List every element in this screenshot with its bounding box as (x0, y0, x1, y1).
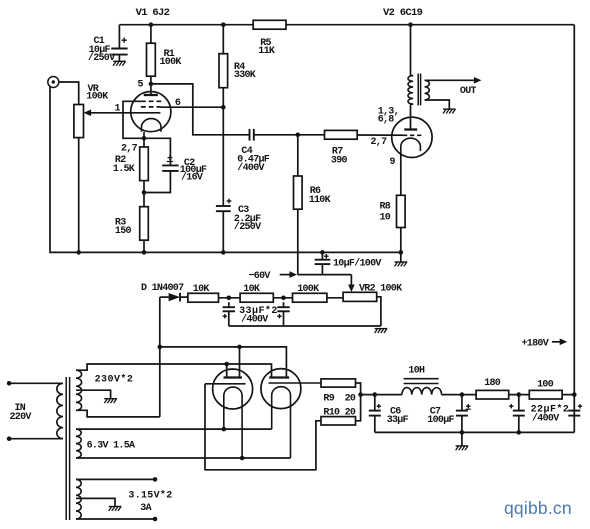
wire HV tap riser (159, 297, 161, 417)
wire top rail to OPT (411, 25, 414, 76)
svg-text:/400V: /400V (241, 314, 268, 326)
svg-text:330K: 330K (234, 70, 256, 81)
resistor 10K first (188, 293, 219, 302)
wire jack to VR top (59, 82, 79, 105)
resistor R4 (222, 25, 224, 54)
svg-text:100: 100 (537, 379, 554, 390)
resistor R10 (321, 417, 356, 425)
wire R7 to V2 grid (357, 134, 403, 136)
svg-text:/400V: /400V (237, 162, 264, 174)
rectifier tube2 envelope (261, 369, 301, 409)
svg-text:9: 9 (390, 157, 396, 168)
node R6 top (296, 133, 301, 138)
svg-text:/250V: /250V (234, 221, 261, 233)
tube V1 envelope (131, 92, 171, 132)
svg-text:/400V: /400V (532, 413, 559, 425)
node R8 ground rail (399, 250, 404, 255)
node 22uF#1 ground (517, 430, 522, 435)
33uF#2 plus mark (277, 315, 281, 317)
wire R8 ground stem (400, 252, 402, 262)
tube1 cathode line (205, 383, 246, 385)
wire filter ground stem (461, 432, 463, 446)
svg-text:/250V: /250V (88, 52, 115, 64)
node 22uF#2 top (572, 392, 577, 397)
wire 6.3V bottom (76, 457, 291, 459)
svg-text:10K: 10K (193, 284, 210, 295)
capacitor C1 (118, 25, 120, 49)
wire V1 cathode lead (143, 132, 145, 147)
resistor R9 (321, 379, 356, 387)
resistor R5 (253, 20, 286, 29)
svg-text:5: 5 (138, 80, 144, 91)
svg-text:1: 1 (115, 103, 121, 114)
node 22uF#1 top (517, 392, 522, 397)
V1 cathode arc (142, 119, 162, 132)
capacitor C3 (216, 205, 231, 207)
resistor R1 (150, 25, 152, 44)
wire V1 screen to R4 node (161, 106, 223, 108)
arrow VR wiper (84, 110, 92, 117)
capacitor 10uF/100V (321, 252, 323, 259)
resistor 180 (476, 390, 509, 399)
wire 6.3V top (76, 428, 272, 430)
wire VR2 wiper drop (350, 275, 352, 286)
C2 plus-minus mark (168, 157, 173, 159)
svg-text:R8: R8 (380, 202, 391, 213)
node C3 ground (221, 250, 226, 255)
svg-text:6,8: 6,8 (378, 115, 395, 126)
node tube1 left anode tap (224, 362, 229, 367)
arrow -60V feed (280, 274, 291, 276)
resistor 100 (529, 390, 562, 399)
resistor R2 (140, 147, 149, 181)
primary winding 220V (57, 383, 63, 438)
node top rail R4 (221, 22, 226, 27)
svg-text:V1 6J2: V1 6J2 (136, 7, 170, 19)
svg-text:3A: 3A (140, 503, 151, 514)
node 33uF#2 tap (281, 296, 286, 301)
terminal mains top (7, 381, 12, 386)
heater winding 6.3V (76, 429, 81, 458)
node 33uF#1 tap (227, 296, 232, 301)
svg-text:+180V: +180V (522, 339, 549, 350)
svg-text:100K: 100K (297, 284, 319, 295)
svg-text:390: 390 (331, 155, 348, 166)
svg-text:R10 20: R10 20 (323, 407, 356, 418)
svg-text:220V: 220V (10, 412, 32, 423)
arrow +180V (552, 341, 560, 343)
node C6 top (373, 392, 378, 397)
svg-text:OUT: OUT (460, 86, 477, 97)
svg-text:110K: 110K (309, 195, 331, 206)
ground (bias) (375, 328, 388, 330)
tube1 anode bar (224, 376, 242, 378)
potentiometer VR (74, 105, 84, 138)
node top rail R1 (149, 22, 154, 27)
wire tube1 left anode leg (226, 364, 228, 378)
resistor R7 (325, 130, 358, 139)
node R2 bottom (142, 190, 147, 195)
svg-text:/16V: /16V (181, 172, 203, 184)
node tube1 right anode tap (237, 345, 242, 350)
node 10uF ground rail (320, 250, 325, 255)
choke core lines (404, 378, 439, 380)
tube2 anode bar (269, 376, 289, 378)
wire B+ line right (442, 394, 575, 396)
wire tube1 cathode to R10 (205, 384, 321, 470)
node VR ground (76, 250, 81, 255)
capacitor 33uF#1 (228, 302, 230, 307)
svg-text:100K: 100K (160, 57, 182, 68)
svg-text:D 1N4007: D 1N4007 (141, 283, 184, 294)
wire R10 to B+ (356, 395, 361, 421)
node top rail V2 (408, 22, 413, 27)
node screen R4 junction (221, 105, 226, 110)
OPT secondary coil (425, 80, 430, 100)
ground (B+ filter) (456, 445, 469, 447)
V2 anode bar (404, 128, 417, 130)
wire -60V rail (298, 274, 352, 276)
svg-text:180: 180 (484, 378, 501, 389)
wire R2 to R3 (143, 181, 145, 207)
capacitor C4 (249, 129, 251, 141)
wire 100K to VR2 (327, 297, 343, 299)
tube2 cathode line to R9 (269, 382, 322, 384)
svg-text:qqibb.cn: qqibb.cn (504, 498, 572, 518)
node tube1 filament left (222, 427, 227, 432)
node R9 R10 join (358, 392, 363, 397)
input jack (48, 77, 59, 88)
svg-text:11K: 11K (258, 46, 275, 57)
wire 10K1 to 10K2 (219, 297, 241, 299)
capacitor C6 (369, 410, 381, 412)
wire VR bottom to ground rail (78, 138, 80, 253)
33uF#1 plus mark (223, 315, 227, 317)
arrow OUT (474, 77, 482, 84)
C1 plus mark (122, 39, 127, 41)
terminal 3.15V bottom (153, 517, 158, 522)
wire 3.15V top lead (76, 478, 155, 480)
wire OPT primary to V2 anode (411, 104, 414, 129)
diode D 1N4007 (160, 296, 169, 298)
filament winding 3.15V (76, 479, 81, 519)
node R3 ground (142, 250, 147, 255)
power transformer core (65, 377, 67, 520)
svg-text:6: 6 (175, 98, 181, 109)
svg-text:230V*2: 230V*2 (95, 374, 134, 386)
svg-text:3.15V*2: 3.15V*2 (128, 490, 172, 502)
potentiometer VR2 (343, 292, 377, 301)
tube V2 envelope (392, 117, 432, 157)
resistor R8 (397, 195, 406, 227)
capacitor 33uF#2 (283, 302, 285, 307)
svg-text:150: 150 (115, 226, 132, 237)
ground (C1) (113, 60, 126, 62)
node tube1 filament right (240, 456, 245, 461)
wire VR2 to bias ground (377, 297, 381, 326)
node C7 ground (460, 430, 465, 435)
resistor 100K bias (293, 293, 327, 302)
wire filter ground line (375, 431, 575, 433)
svg-text:10H: 10H (408, 366, 425, 377)
ground (3.15V center tap) (109, 506, 122, 508)
wire jack ground + ground rail (50, 86, 401, 253)
rectifier tube1 envelope (213, 369, 253, 409)
22uF#2 plus mark (578, 405, 582, 407)
wire B+ line left (361, 394, 402, 396)
wire R3 to ground rail (143, 240, 145, 252)
OPT primary coil (408, 76, 413, 105)
wire 3.15V bottom lead (76, 518, 155, 520)
wire HV bottom lead (76, 410, 160, 417)
node V1 anode (pin5) (149, 82, 154, 87)
terminal 3.15V top (153, 477, 158, 482)
wire 10K2 to 100K (273, 297, 292, 299)
wire tube1 right anode leg (239, 347, 241, 378)
wire 3.15V center tap (76, 498, 115, 506)
V1 grid dashes row2 (141, 106, 161, 108)
svg-text:V2 6C19: V2 6C19 (383, 7, 423, 19)
capacitor C7 (456, 410, 468, 412)
svg-text:2,7: 2,7 (121, 144, 138, 155)
svg-text:100μF: 100μF (427, 415, 454, 426)
resistor R6 (297, 135, 299, 176)
wire right B+ vertical (573, 25, 575, 433)
node riser rectifier line (158, 345, 163, 350)
tube1 filament (224, 387, 242, 458)
svg-text:100K: 100K (86, 92, 108, 103)
wire V1 suppressor to cathode (123, 101, 144, 138)
22uF#1 plus mark (509, 405, 513, 407)
wire rectifier line1 (HV bottom) (160, 347, 287, 378)
V2 grid dashes (403, 134, 422, 136)
svg-text:−60V: −60V (249, 271, 271, 282)
C6 plus mark (377, 405, 381, 407)
wire C4 to R7 (254, 134, 325, 136)
wire mains top lead (9, 382, 63, 384)
wire V2 cathode to R8 (400, 151, 402, 195)
svg-text:10K: 10K (243, 284, 260, 295)
capacitor 22uF#2 (568, 410, 580, 412)
svg-text:10: 10 (380, 213, 391, 224)
resistor 10K second (240, 293, 273, 302)
wire V1 grid line (87, 112, 161, 114)
V2 cathode arc (401, 138, 421, 151)
wire HV center tap (76, 390, 111, 399)
svg-text:6.3V 1.5A: 6.3V 1.5A (87, 441, 135, 452)
10uF plus mark (324, 255, 328, 257)
svg-text:VR2 100K: VR2 100K (359, 283, 402, 294)
HV winding 230V*2 (76, 370, 82, 410)
V1 anode bar (144, 94, 158, 96)
OPT core (417, 74, 419, 106)
wire V1 anode to C4 (151, 84, 250, 135)
resistor R3 (140, 207, 149, 241)
node C7 top (460, 392, 465, 397)
wire rectifier line2 (HV top) (76, 364, 272, 378)
C3 plus mark (227, 200, 232, 202)
V1 grid dashes row1 (141, 100, 161, 102)
svg-text:R9 20: R9 20 (323, 394, 356, 405)
choke 10H (402, 388, 442, 395)
svg-text:1.5K: 1.5K (113, 164, 135, 175)
wire R9 to B+ (356, 383, 361, 395)
wire OPT secondary top to OUT (425, 79, 475, 81)
tube2 filament (272, 387, 291, 458)
wire B+ top rail (119, 24, 574, 26)
ground (main rail) (395, 261, 408, 263)
wire OPT secondary bottom (425, 100, 450, 109)
capacitor 22uF#1 (513, 410, 525, 412)
ground (HV center tap) (104, 398, 117, 400)
svg-text:10μF/100V: 10μF/100V (333, 257, 381, 269)
wire bias bottom line (229, 325, 381, 327)
C7 plus mark (466, 405, 470, 407)
node V1 cathode (142, 136, 147, 141)
svg-text:33μF: 33μF (387, 415, 409, 426)
svg-text:2,7: 2,7 (371, 137, 388, 148)
ground (OPT secondary) (443, 108, 456, 110)
wire mains bottom lead (9, 438, 63, 440)
terminal mains bottom (7, 436, 12, 441)
capacitor C2 branch (144, 138, 170, 165)
